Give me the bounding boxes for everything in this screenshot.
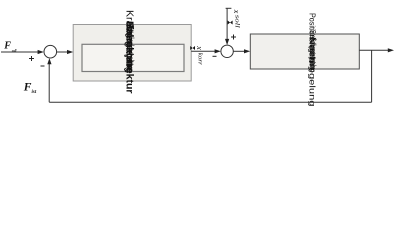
wire: x_soll vertical input <box>226 8 228 39</box>
wire: input F soll <box>1 51 39 53</box>
svg-text:soll: soll <box>11 49 17 53</box>
svg-text:x: x <box>195 45 204 50</box>
wire: feedback up into junction 1 <box>48 64 50 103</box>
block: inner box <box>82 44 184 71</box>
wire: junction1 to force controller box <box>57 51 68 53</box>
arrowhead into summing junction 1 <box>38 50 44 54</box>
bowtie symbol on x_soll wire <box>228 21 233 25</box>
wire: output from position box <box>359 49 388 51</box>
summing junction 2 <box>221 45 233 57</box>
arrowhead into junction 1 from below <box>47 58 51 64</box>
svg-text:ist: ist <box>32 90 37 95</box>
wire: force box to junction 2 <box>191 50 215 52</box>
svg-text:Reibungsregelung: Reibungsregelung <box>125 22 135 73</box>
svg-text:F: F <box>3 41 11 52</box>
minus sign at junction 2 <box>213 55 217 57</box>
summing junction 1 <box>44 45 57 58</box>
plus sign at junction 1 <box>29 56 34 61</box>
svg-text:korr: korr <box>197 53 203 66</box>
wire: feedback down from output junction <box>371 50 373 102</box>
plus sign at junction 2 <box>231 35 236 40</box>
arrowhead into junction 2 <box>215 49 221 53</box>
block: Positionsregelung box <box>250 34 359 69</box>
arrowhead into position box <box>244 49 250 53</box>
svg-text:F: F <box>23 82 32 94</box>
arrowhead into junction 2 from top <box>225 39 229 45</box>
svg-text:x: x <box>232 9 241 14</box>
output arrowhead <box>388 48 394 52</box>
svg-text:soll: soll <box>234 15 240 28</box>
block: Kraftregelung outer box <box>73 25 191 82</box>
minus sign at junction 1 <box>41 65 45 67</box>
start tick of x_soll wire <box>226 7 232 9</box>
arrowhead into force box <box>67 50 73 54</box>
wire: feedback bottom horizontal <box>49 101 371 103</box>
svg-text:Sollwertvorgabe: Sollwertvorgabe <box>309 38 319 70</box>
wire: junction 2 to position box <box>233 50 245 52</box>
bowtie symbol on x_korr wire <box>190 46 195 50</box>
